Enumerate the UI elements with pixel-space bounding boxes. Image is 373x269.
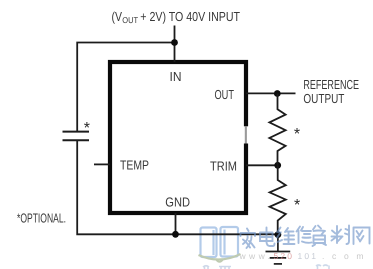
wire: TEMP pin stub	[94, 163, 110, 165]
char 4 xiu	[297, 227, 312, 244]
char 5 zi	[313, 226, 327, 247]
ground	[266, 235, 291, 264]
right edge thin/gray section artifact	[243, 126, 248, 143]
wire: OUT pin to reference output	[246, 92, 296, 94]
label: input voltage	[112, 9, 241, 25]
svg-text:TEMP: TEMP	[120, 157, 149, 172]
char 2 dian	[260, 228, 275, 247]
resistor R1 (OUT to TRIM)	[269, 94, 285, 166]
node: OUT junction	[274, 90, 281, 97]
IC box U1	[110, 62, 246, 213]
wire: TRIM pin	[246, 164, 278, 166]
char 3 wei	[277, 228, 295, 245]
wire: input vertical into IN pin	[174, 26, 176, 63]
svg-text:+ 2V) TO 40V INPUT: + 2V) TO 40V INPUT	[140, 9, 240, 24]
wire: capacitor to bottom rail	[77, 140, 278, 234]
resistor R2 (TRIM to GND)	[270, 165, 286, 234]
watermark url www.520101.com	[239, 251, 366, 261]
node: bottom rail / R2 junction	[275, 231, 282, 238]
char 7 wang	[354, 228, 370, 245]
svg-text:GND: GND	[165, 195, 190, 210]
svg-text:520: 520	[274, 251, 294, 261]
svg-text:*OPTIONAL.: *OPTIONAL.	[17, 210, 66, 225]
svg-text:101: 101	[298, 251, 318, 261]
node: TRIM junction	[274, 162, 281, 169]
svg-text:IN: IN	[170, 69, 182, 84]
svg-text:(V: (V	[112, 9, 123, 24]
svg-text:REFERENCE: REFERENCE	[303, 77, 359, 92]
watermark second row clipped glyph tops	[203, 265, 329, 269]
svg-text:*: *	[294, 126, 300, 143]
capacitor C1 top plate	[63, 131, 90, 133]
wire: top branch to capacitor	[77, 43, 174, 132]
svg-text:TRIM: TRIM	[210, 159, 237, 174]
svg-text:*: *	[294, 197, 300, 214]
node: input junction	[171, 39, 178, 46]
svg-text:OUT: OUT	[122, 15, 138, 25]
wire: GND pin to bottom rail	[175, 213, 177, 234]
node: GND junction	[172, 231, 179, 238]
watermark chinese text row	[241, 226, 370, 249]
svg-text:OUTPUT: OUTPUT	[303, 91, 344, 106]
watermark logo green base	[199, 254, 241, 260]
char 1 jia	[241, 229, 256, 249]
char 6 liao	[332, 226, 350, 245]
svg-text:*: *	[84, 120, 90, 137]
watermark logo (open book)	[201, 227, 239, 257]
svg-text:OUT: OUT	[215, 87, 235, 102]
capacitor C1 bottom plate	[63, 139, 90, 141]
